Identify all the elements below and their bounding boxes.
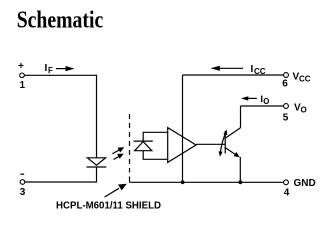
svg-text:5: 5 [283, 112, 289, 123]
svg-text:O: O [263, 97, 269, 106]
pin 1 terminal [20, 73, 25, 78]
node - (cathode polarity mark) [20, 173, 24, 175]
svg-text:O: O [301, 105, 307, 114]
svg-text:Schematic: Schematic [17, 7, 104, 34]
photodiode D2 [134, 141, 153, 151]
shield pointer arrow [105, 184, 127, 197]
svg-text:HCPL-M601/11 SHIELD: HCPL-M601/11 SHIELD [56, 199, 161, 211]
light emission arrows [112, 147, 124, 159]
svg-text:3: 3 [20, 187, 26, 198]
pin 6 terminal [284, 73, 289, 78]
wire photodiode anode to amplifier bottom [143, 151, 168, 160]
pin 5 terminal [284, 104, 289, 109]
current arrow IO [241, 96, 257, 100]
svg-text:CC: CC [254, 67, 266, 76]
wire collector to VO [240, 106, 242, 128]
junction emitter/GND [239, 180, 243, 184]
pin 3 terminal [20, 180, 25, 185]
wire pin1 to LED anode [24, 75, 96, 158]
wire VO [241, 105, 284, 107]
wire amplifier output to transistor base [196, 143, 225, 145]
wire emitter to GND rail [239, 157, 241, 182]
wire VCC bias line [182, 75, 184, 182]
svg-text:CC: CC [299, 74, 311, 83]
svg-text:6: 6 [282, 79, 288, 90]
wire VCC rail [183, 74, 284, 76]
wire GND rail [130, 181, 284, 183]
LED D1 [87, 158, 107, 167]
wire LED cathode to pin 3 [25, 167, 97, 182]
amplifier U1 [168, 128, 196, 163]
wire shield to GND rail [129, 177, 131, 183]
current arrow IF [56, 66, 75, 71]
svg-text:+: + [18, 61, 24, 72]
transistor Q1 [219, 128, 241, 158]
svg-text:1: 1 [20, 80, 26, 91]
pin 4 terminal [284, 180, 289, 185]
svg-text:4: 4 [284, 187, 290, 198]
shield (dashed line) [129, 114, 131, 173]
junction bias/GND [181, 180, 185, 184]
wire photodiode cathode to amplifier top [143, 132, 168, 141]
current arrow ICC [211, 66, 244, 71]
svg-text:GND: GND [294, 178, 316, 189]
svg-text:F: F [48, 66, 53, 75]
